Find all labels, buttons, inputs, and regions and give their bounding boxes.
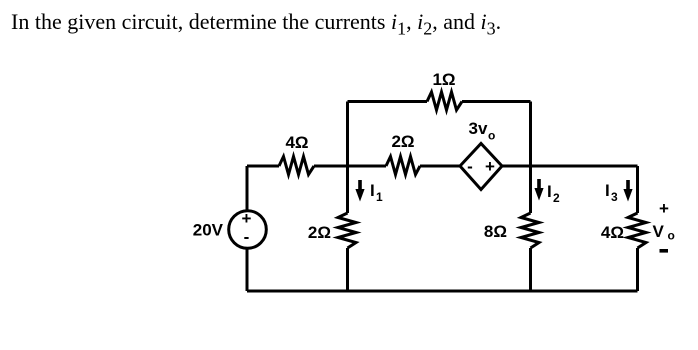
svg-text:20V: 20V bbox=[193, 221, 224, 240]
svg-text:3v: 3v bbox=[469, 119, 488, 138]
resistor R 8ohm vertical bbox=[521, 213, 539, 248]
problem statement text bbox=[11, 9, 501, 39]
svg-text:I: I bbox=[605, 181, 610, 200]
label Vo minus bbox=[660, 249, 669, 253]
label 4ohm horizontal bbox=[285, 133, 308, 152]
svg-text:+: + bbox=[659, 199, 669, 218]
svg-text:V: V bbox=[653, 222, 665, 241]
svg-text:o: o bbox=[668, 229, 675, 243]
resistor R 2ohm vertical bbox=[338, 213, 356, 248]
source plus sign bbox=[242, 209, 252, 228]
label 1ohm bbox=[432, 70, 455, 89]
label I3 bbox=[605, 181, 618, 204]
svg-text:4Ω: 4Ω bbox=[601, 223, 624, 242]
label I2 bbox=[547, 182, 560, 205]
current arrow I3 bbox=[623, 180, 632, 202]
wire left vertical above source bbox=[246, 166, 249, 211]
wire left vertical below source bbox=[246, 248, 249, 291]
resistor R 4ohm vertical bbox=[628, 213, 646, 248]
svg-text:I: I bbox=[547, 182, 552, 201]
resistor R 1ohm top bbox=[427, 92, 462, 110]
label Vo plus bbox=[659, 199, 669, 218]
voltage source 20V circle bbox=[229, 211, 267, 249]
wire top left segment (1-ohm branch left) bbox=[348, 100, 428, 103]
wire diamond to node B and corner right bbox=[502, 165, 638, 168]
wire vertical x348 top bbox=[346, 102, 349, 214]
svg-text:o: o bbox=[488, 129, 495, 143]
label 3vo bbox=[469, 119, 496, 143]
wire bottom rail bbox=[247, 290, 638, 293]
svg-text:1: 1 bbox=[376, 190, 383, 204]
wire vertical x348 bottom bbox=[346, 248, 349, 291]
svg-text:1Ω: 1Ω bbox=[432, 70, 455, 89]
svg-text:+: + bbox=[485, 157, 495, 176]
label 4ohm vertical bbox=[601, 223, 624, 242]
svg-text:2Ω: 2Ω bbox=[391, 132, 414, 151]
diamond plus sign bbox=[485, 157, 495, 176]
wire 2-ohm to diamond bbox=[420, 165, 460, 168]
svg-text:2Ω: 2Ω bbox=[308, 223, 331, 242]
diamond minus sign bbox=[467, 157, 473, 176]
label 2ohm vertical bbox=[308, 223, 331, 242]
dependent source diamond 3vo bbox=[460, 144, 502, 190]
svg-text:-: - bbox=[244, 228, 250, 247]
wire vertical x638 bottom bbox=[636, 248, 639, 291]
svg-text:2: 2 bbox=[553, 191, 560, 205]
label 20V bbox=[193, 221, 224, 240]
label 8ohm bbox=[484, 222, 507, 241]
resistor R 4ohm horizontal bbox=[279, 157, 314, 175]
label I1 bbox=[370, 181, 383, 204]
resistor R 2ohm horizontal bbox=[386, 157, 420, 175]
source minus sign bbox=[244, 228, 250, 247]
wire vertical x531 bottom bbox=[529, 248, 532, 291]
wire middle left (source node to 4-ohm) bbox=[247, 165, 279, 168]
label 2ohm horizontal bbox=[391, 132, 414, 151]
current arrow I1 bbox=[355, 180, 364, 202]
svg-text:I: I bbox=[370, 181, 375, 200]
wire vertical x531 top bbox=[529, 102, 532, 214]
wire vertical x638 top bbox=[636, 166, 639, 213]
svg-text:4Ω: 4Ω bbox=[285, 133, 308, 152]
svg-text:-: - bbox=[467, 157, 473, 176]
current arrow I2 bbox=[534, 179, 543, 201]
wire 4-ohm to node A bbox=[314, 165, 386, 168]
wire top right segment (1-ohm branch right) bbox=[462, 100, 531, 103]
svg-text:8Ω: 8Ω bbox=[484, 222, 507, 241]
label Vo bbox=[653, 222, 675, 243]
svg-text:3: 3 bbox=[611, 190, 618, 204]
svg-text:+: + bbox=[242, 209, 252, 228]
